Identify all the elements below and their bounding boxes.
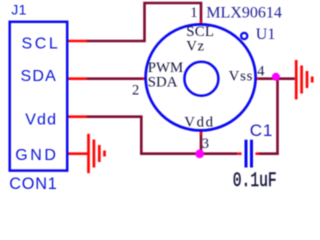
svg-text:MLX90614: MLX90614 bbox=[206, 5, 282, 22]
svg-text:Vss: Vss bbox=[229, 69, 254, 85]
svg-text:Vz: Vz bbox=[186, 39, 204, 55]
svg-text:1: 1 bbox=[190, 5, 197, 21]
svg-text:0.1uF: 0.1uF bbox=[233, 170, 277, 193]
svg-text:U1: U1 bbox=[256, 26, 276, 43]
svg-text:Vdd: Vdd bbox=[25, 112, 57, 129]
svg-text:C1: C1 bbox=[250, 121, 273, 140]
svg-text:GND: GND bbox=[15, 147, 58, 164]
svg-text:PWM: PWM bbox=[148, 60, 183, 76]
svg-text:2: 2 bbox=[132, 82, 139, 98]
svg-text:4: 4 bbox=[257, 64, 265, 80]
svg-text:Vdd: Vdd bbox=[184, 115, 214, 131]
svg-text:SDA: SDA bbox=[148, 75, 178, 91]
svg-text:SDA: SDA bbox=[21, 68, 58, 85]
svg-text:3: 3 bbox=[202, 136, 209, 152]
svg-text:SCL: SCL bbox=[22, 35, 61, 52]
svg-text:J1: J1 bbox=[11, 1, 27, 17]
svg-text:CON1: CON1 bbox=[9, 175, 57, 193]
